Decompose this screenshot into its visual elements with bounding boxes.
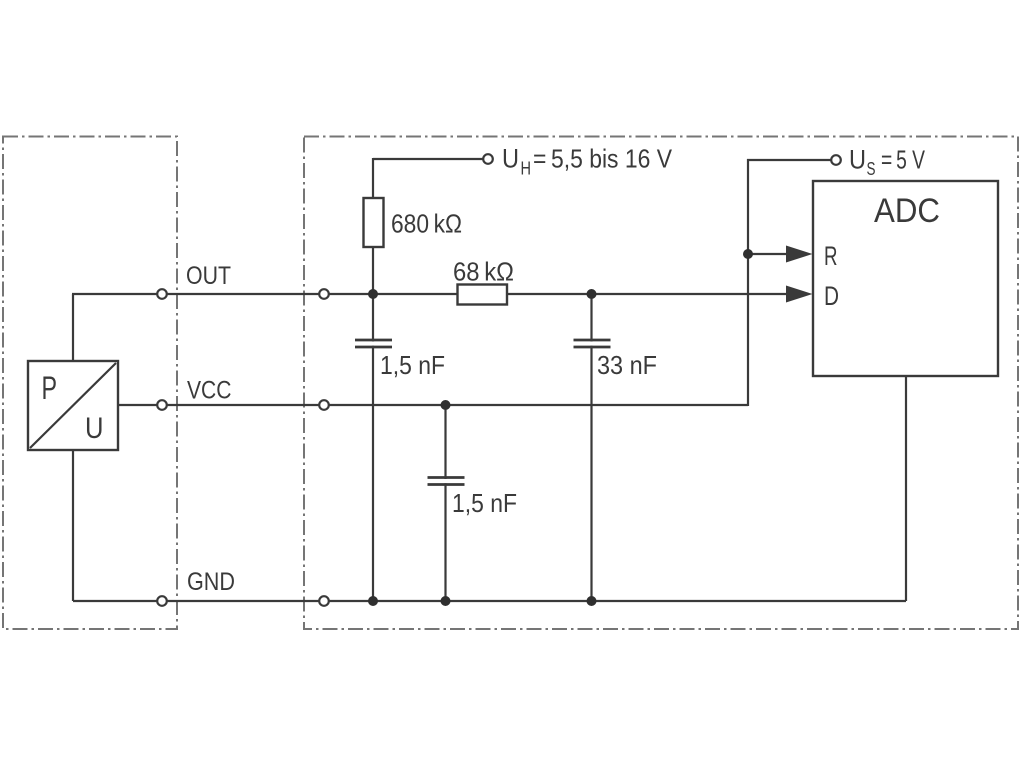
svg-text:U: U — [502, 144, 519, 174]
svg-text:33 nF: 33 nF — [597, 350, 657, 380]
label C3 value 33 nF — [597, 350, 657, 380]
svg-text:GND: GND — [187, 568, 235, 596]
label C2 value 1,5 nF — [452, 488, 517, 518]
label C1 value 1,5 nF — [380, 350, 445, 380]
wire: VCC vertical riser to supply — [747, 159, 749, 406]
net label GND — [187, 568, 235, 596]
wire: capacitor C1 branch — [372, 294, 374, 601]
net label OUT — [186, 262, 231, 290]
pin D of ADC — [824, 281, 839, 311]
wire: ADC ground lead — [905, 375, 907, 601]
terminal: OUT at ECU boundary — [319, 289, 329, 299]
terminal: GND at ECU boundary — [319, 596, 329, 606]
svg-text:VCC: VCC — [187, 377, 232, 405]
svg-text:68 kΩ: 68 kΩ — [453, 257, 514, 287]
terminal: U_S supply — [831, 155, 841, 165]
svg-text:U: U — [85, 412, 104, 445]
node: GND junction with C3 — [587, 596, 597, 606]
terminal: U_H supply — [483, 154, 493, 164]
wire: R reference line — [748, 253, 789, 255]
node: GND junction with C1 — [368, 596, 378, 606]
wire: VCC line — [117, 404, 748, 406]
terminal: GND at sensor boundary — [157, 596, 167, 606]
svg-text:1,5 nF: 1,5 nF — [380, 350, 445, 380]
node: OUT junction with R1 and C1 — [368, 289, 378, 299]
net label U_H = 5,5 bis 16 V — [502, 144, 673, 179]
svg-text:= 5 V: = 5 V — [881, 145, 925, 175]
wire: capacitor C2 branch — [444, 405, 446, 601]
capacitor C1 1,5 nF — [354, 340, 392, 347]
node: VCC junction with C2 — [441, 400, 451, 410]
wire: U_S supply stub — [747, 159, 831, 161]
node: GND junction with C2 — [441, 596, 451, 606]
wire: U_H supply stub — [373, 158, 483, 160]
svg-text:U: U — [849, 145, 866, 175]
wire: sensor OUT lead up — [72, 294, 74, 362]
svg-text:ADC: ADC — [874, 192, 940, 230]
ECU filter enclosure dashed box — [304, 137, 1018, 630]
svg-text:D: D — [824, 281, 839, 311]
svg-text:P: P — [42, 370, 58, 406]
label R2 value 68 kOhm — [453, 257, 514, 287]
terminal: VCC at ECU boundary — [319, 400, 329, 410]
capacitor C2 1,5 nF — [427, 478, 465, 485]
wire: sensor GND lead down — [72, 449, 74, 601]
node: R branch junction on VCC riser — [743, 249, 753, 259]
capacitor C3 33 nF — [573, 340, 611, 347]
wire: OUT / D signal line — [72, 293, 789, 295]
terminal: OUT at sensor boundary — [157, 289, 167, 299]
svg-text:S: S — [867, 159, 876, 179]
label R1 value 680 kOhm — [391, 209, 462, 239]
svg-text:R: R — [824, 241, 838, 271]
terminal: VCC at sensor boundary — [157, 400, 167, 410]
arrowhead into pin R — [786, 246, 813, 263]
wire: GND line — [73, 600, 906, 602]
resistor R1 680 kOhm — [364, 198, 384, 247]
svg-text:= 5,5 bis 16 V: = 5,5 bis 16 V — [533, 144, 673, 174]
svg-text:680 kΩ: 680 kΩ — [391, 209, 462, 239]
svg-text:OUT: OUT — [186, 262, 231, 290]
wire: 680k resistor leads — [372, 158, 374, 294]
ADC box U2 — [813, 181, 998, 376]
svg-text:1,5 nF: 1,5 nF — [452, 488, 517, 518]
node: D line junction with C3 — [587, 289, 597, 299]
sensor U1 pressure cell P/U — [28, 361, 118, 450]
pin R of ADC — [824, 241, 838, 271]
wire: capacitor C3 branch — [590, 294, 592, 601]
net label VCC — [187, 377, 232, 405]
arrowhead into pin D — [786, 286, 813, 303]
resistor R2 68 kOhm — [458, 285, 508, 305]
net label U_S = 5 V — [849, 145, 925, 180]
svg-text:H: H — [521, 159, 532, 179]
sensor enclosure dashed box — [3, 137, 177, 630]
